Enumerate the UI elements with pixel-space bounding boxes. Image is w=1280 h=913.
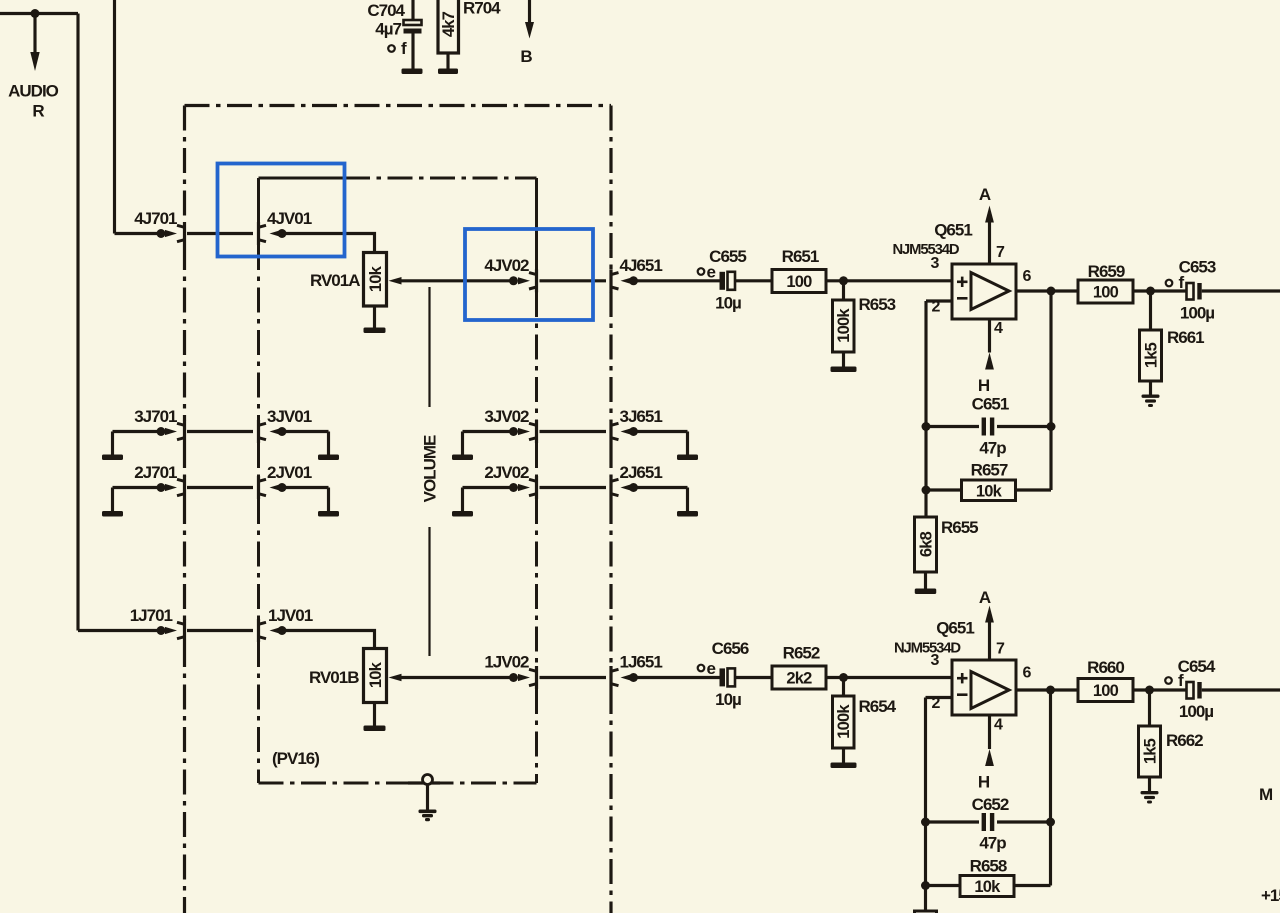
capacitor C651 bbox=[926, 395, 1051, 458]
stub terminal 2JV02 bbox=[452, 488, 510, 517]
wire 3JV02 to 3J651 bbox=[540, 430, 607, 433]
svg-text:R653: R653 bbox=[859, 295, 896, 314]
potentiometer RV01B bbox=[309, 649, 402, 703]
wire op-amp pin2 bottom bbox=[926, 696, 953, 699]
ground symbol under R662 bbox=[1141, 791, 1159, 804]
svg-text:100k: 100k bbox=[835, 704, 853, 739]
svg-text:M: M bbox=[1259, 785, 1273, 804]
junction dot C651 right bbox=[1047, 422, 1056, 431]
svg-text:H: H bbox=[978, 773, 990, 792]
svg-text:7: 7 bbox=[996, 641, 1005, 658]
junction dot C652 left bbox=[921, 818, 930, 827]
junction dot at R662 bbox=[1145, 686, 1154, 695]
svg-text:AUDIO: AUDIO bbox=[8, 82, 59, 101]
svg-text:B: B bbox=[520, 47, 532, 66]
svg-text:RV01A: RV01A bbox=[310, 271, 360, 290]
svg-text:10µ: 10µ bbox=[715, 294, 741, 313]
wire audio-R input bus top bbox=[0, 12, 78, 15]
pin 3 label bottom op-amp bbox=[931, 652, 940, 669]
connector 2J651 bbox=[611, 463, 662, 499]
highlight box around 4JV02 bbox=[465, 229, 593, 320]
wire RV01A wiper to 4JV02 bbox=[401, 279, 511, 282]
svg-text:10k: 10k bbox=[976, 483, 1003, 501]
arrow to AUDIO R label bbox=[30, 14, 39, 72]
stub terminal 2J701 bbox=[102, 488, 166, 517]
connector 1JV02 bbox=[484, 653, 536, 690]
junction dot at R654 bbox=[839, 673, 848, 682]
terminal bar under RV01A bbox=[364, 328, 386, 334]
svg-text:Q651: Q651 bbox=[934, 221, 972, 240]
capacitor C654 bbox=[1178, 657, 1216, 721]
junction dot 3J701 bbox=[157, 427, 166, 436]
wire 1JV01 to RV01B bbox=[282, 631, 375, 649]
pin 2 label bottom op-amp bbox=[932, 695, 941, 712]
wire op-amp output bottom bbox=[1016, 688, 1078, 691]
wire 4JV02 to 4J651 bbox=[540, 279, 607, 282]
wire R660 to C654 bbox=[1133, 688, 1187, 691]
wire C656 to R652 bbox=[735, 676, 772, 679]
ground terminal under R704 bbox=[438, 69, 458, 75]
power arrow H top bbox=[978, 319, 994, 395]
connector 3J701 bbox=[134, 407, 184, 443]
svg-text:47p: 47p bbox=[979, 439, 1006, 458]
svg-text:2J701: 2J701 bbox=[134, 463, 177, 482]
resistor R661 bbox=[1140, 291, 1205, 381]
svg-text:10k: 10k bbox=[367, 265, 385, 292]
svg-text:C653: C653 bbox=[1179, 258, 1216, 277]
svg-text:+15: +15 bbox=[1261, 886, 1280, 905]
svg-text:3: 3 bbox=[931, 652, 940, 669]
resistor R652 bbox=[772, 644, 826, 690]
wire 4J701 row bbox=[115, 232, 167, 235]
svg-text:1J651: 1J651 bbox=[620, 653, 663, 672]
wire 4J651 to C655 bbox=[632, 279, 720, 282]
junction dot 3JV02 bbox=[509, 427, 518, 436]
wire RV01B bottom bbox=[373, 703, 376, 726]
stub terminal 3JV01 bbox=[282, 432, 339, 461]
wire 1J701 to 1JV01 bbox=[187, 629, 253, 632]
connector 3JV02 bbox=[484, 407, 536, 443]
wire RV01B wiper to 1JV02 bbox=[401, 676, 511, 679]
svg-text:100: 100 bbox=[1093, 682, 1119, 700]
highlight box around 4JV01 bbox=[218, 164, 345, 257]
svg-text:100k: 100k bbox=[835, 308, 853, 343]
wire 4J701 branch vertical bbox=[113, 0, 116, 234]
pin 7 label bottom op-amp bbox=[996, 641, 1005, 658]
feedback left vertical top bbox=[924, 301, 927, 517]
stub terminal 3JV02 bbox=[452, 432, 510, 461]
op-amp U2 Q651 bottom bbox=[894, 619, 1016, 716]
svg-text:100: 100 bbox=[786, 273, 812, 291]
svg-text:R657: R657 bbox=[971, 461, 1008, 480]
power arrow B bbox=[520, 0, 534, 66]
svg-text:1JV02: 1JV02 bbox=[484, 653, 529, 672]
svg-text:4k7: 4k7 bbox=[440, 11, 458, 37]
wire op-amp output top bbox=[1016, 289, 1078, 292]
wire R655 to ground bbox=[924, 572, 927, 589]
svg-text:47p: 47p bbox=[979, 834, 1006, 853]
footnote mark of C654 bbox=[1165, 671, 1184, 690]
pin 2 label top op-amp bbox=[932, 299, 941, 316]
outer dash-dot box left edge bbox=[183, 106, 186, 913]
svg-text:2k2: 2k2 bbox=[786, 670, 812, 688]
wire 2JV02 to 2J651 bbox=[540, 486, 607, 489]
connector 2JV02 bbox=[484, 463, 536, 499]
svg-text:R704: R704 bbox=[463, 0, 501, 18]
svg-text:C704: C704 bbox=[367, 1, 405, 20]
svg-text:1k5: 1k5 bbox=[1143, 342, 1161, 368]
svg-text:3JV02: 3JV02 bbox=[484, 407, 529, 426]
svg-text:R662: R662 bbox=[1166, 731, 1203, 750]
inner dash-dot box right edge bbox=[535, 178, 538, 783]
pin 4 label bottom op-amp bbox=[994, 717, 1003, 734]
connector 2J701 bbox=[134, 463, 184, 499]
wire C653 to edge bbox=[1202, 289, 1280, 292]
junction dot output top bbox=[1047, 287, 1056, 296]
connector 3JV01 bbox=[259, 407, 312, 443]
resistor R704 bbox=[438, 0, 501, 69]
volume coupling dashed line bbox=[428, 287, 430, 656]
connector 1J701 bbox=[130, 606, 185, 642]
junction dot 4J701 bbox=[157, 229, 166, 238]
svg-text:A: A bbox=[979, 185, 991, 204]
svg-text:4: 4 bbox=[994, 717, 1003, 734]
junction dot at R661 bbox=[1146, 287, 1155, 296]
chassis ground at inner box bottom bbox=[408, 775, 440, 822]
ground terminal under R653 bbox=[831, 367, 857, 373]
terminal bar under R655 bbox=[915, 589, 937, 595]
capacitor C655 bbox=[709, 247, 746, 313]
footnote mark oe of C656 bbox=[698, 659, 716, 678]
capacitor C656 bbox=[712, 639, 749, 709]
power arrow H bottom bbox=[978, 715, 994, 792]
resistor R659 bbox=[1078, 262, 1133, 303]
pin 4 label top op-amp bbox=[994, 320, 1003, 337]
footnote mark of C653 bbox=[1166, 273, 1185, 292]
junction dot R657 left bbox=[922, 486, 931, 495]
svg-text:C651: C651 bbox=[972, 395, 1009, 414]
inner dash-dot box top edge bbox=[259, 177, 537, 180]
junction on audio-R bus bbox=[31, 9, 40, 18]
svg-text:R659: R659 bbox=[1088, 262, 1125, 281]
potentiometer RV01A bbox=[310, 253, 402, 307]
op-amp U1 Q651 top bbox=[892, 221, 1016, 320]
capacitor C652 bbox=[926, 795, 1051, 853]
junction dot R658 left bbox=[921, 881, 930, 890]
svg-text:1J701: 1J701 bbox=[130, 606, 173, 625]
pin 3 label top op-amp bbox=[931, 255, 940, 272]
svg-text:RV01B: RV01B bbox=[309, 668, 359, 687]
connector 2JV01 bbox=[259, 463, 312, 499]
svg-text:100: 100 bbox=[1093, 284, 1119, 302]
wire RV01A bottom bbox=[373, 306, 376, 328]
wire R661 to ground bbox=[1149, 381, 1152, 395]
svg-text:C652: C652 bbox=[972, 795, 1009, 814]
pin 6 label bottom op-amp bbox=[1023, 665, 1032, 682]
svg-text:6: 6 bbox=[1023, 268, 1032, 285]
connector 4J701 bbox=[134, 209, 184, 245]
pin 6 label top op-amp bbox=[1023, 268, 1032, 285]
svg-text:NJM5534D: NJM5534D bbox=[892, 242, 959, 258]
resistor R654 bbox=[833, 678, 897, 749]
svg-text:100µ: 100µ bbox=[1180, 304, 1214, 323]
resistor R651 bbox=[772, 247, 826, 293]
resistor R658 bbox=[926, 857, 1051, 897]
footnote mark oe of C655 bbox=[698, 263, 716, 282]
inner dash-dot box left edge bbox=[257, 178, 260, 783]
feedback left vertical bottom bbox=[924, 698, 927, 912]
wire 1JV02 to 1J651 bbox=[540, 676, 607, 679]
junction dot output bottom bbox=[1046, 686, 1055, 695]
svg-text:VOLUME: VOLUME bbox=[421, 435, 440, 502]
footnote mark of C704 bbox=[388, 39, 407, 58]
stub terminal 2J651 bbox=[632, 488, 699, 517]
stub terminal 2JV01 bbox=[282, 488, 339, 517]
wire C655 to R651 bbox=[735, 279, 772, 282]
svg-text:3: 3 bbox=[931, 255, 940, 272]
power arrow A top bbox=[979, 185, 994, 264]
svg-text:Q651: Q651 bbox=[936, 619, 974, 638]
svg-text:R655: R655 bbox=[941, 518, 978, 537]
svg-text:6k8: 6k8 bbox=[918, 531, 936, 557]
svg-text:10k: 10k bbox=[367, 661, 385, 688]
svg-text:e: e bbox=[707, 263, 716, 282]
connector 1JV01 bbox=[259, 606, 313, 642]
svg-text:R651: R651 bbox=[782, 247, 819, 266]
stub terminal 3J701 bbox=[102, 432, 166, 461]
outer dash-dot box top edge bbox=[185, 104, 612, 107]
terminal bar under RV01B bbox=[364, 726, 386, 732]
svg-text:NJM5534D: NJM5534D bbox=[894, 641, 961, 657]
svg-text:C656: C656 bbox=[712, 639, 749, 658]
resistor R660 bbox=[1078, 658, 1133, 702]
resistor R653 bbox=[833, 281, 896, 352]
svg-text:2JV02: 2JV02 bbox=[484, 463, 529, 482]
svg-text:4: 4 bbox=[994, 320, 1003, 337]
connector 1J651 bbox=[611, 653, 662, 690]
svg-text:R652: R652 bbox=[783, 644, 820, 663]
capacitor C704 bbox=[367, 0, 421, 69]
ground symbol under R661 bbox=[1142, 395, 1160, 408]
connector 4JV01 bbox=[259, 209, 312, 245]
svg-text:6: 6 bbox=[1023, 665, 1032, 682]
svg-text:3J651: 3J651 bbox=[620, 407, 663, 426]
connector 4J651 bbox=[611, 256, 662, 292]
svg-text:4JV02: 4JV02 bbox=[484, 256, 529, 275]
wire R659 to C653 bbox=[1133, 289, 1187, 292]
svg-text:4µ7: 4µ7 bbox=[375, 20, 401, 39]
wire 1J701 row bbox=[78, 629, 166, 632]
svg-text:3JV01: 3JV01 bbox=[267, 407, 312, 426]
stub terminal 3J651 bbox=[632, 432, 699, 461]
svg-text:3J701: 3J701 bbox=[134, 407, 177, 426]
svg-text:f: f bbox=[401, 39, 407, 58]
ground terminal under R654 bbox=[831, 763, 857, 769]
svg-text:C654: C654 bbox=[1178, 657, 1216, 676]
resistor R657 bbox=[926, 461, 1051, 501]
svg-text:100µ: 100µ bbox=[1179, 702, 1213, 721]
junction dot 2J701 bbox=[157, 483, 166, 492]
svg-text:4J701: 4J701 bbox=[134, 209, 177, 228]
svg-text:R658: R658 bbox=[970, 857, 1007, 876]
svg-text:A: A bbox=[979, 588, 991, 607]
svg-text:1JV01: 1JV01 bbox=[268, 606, 313, 625]
wire 1J651 to C656 bbox=[632, 676, 720, 679]
svg-text:1k5: 1k5 bbox=[1142, 738, 1160, 764]
svg-text:4JV01: 4JV01 bbox=[267, 209, 312, 228]
svg-text:10k: 10k bbox=[974, 878, 1001, 896]
feedback right vertical top bbox=[1049, 291, 1052, 490]
wire R651 to op-amp bbox=[826, 279, 952, 282]
outer dash-dot box right edge bbox=[609, 106, 612, 913]
wire R662 to ground bbox=[1148, 777, 1151, 792]
label M at right edge bbox=[1259, 785, 1273, 804]
svg-text:2JV01: 2JV01 bbox=[267, 463, 312, 482]
ground terminal under C704 bbox=[402, 69, 423, 75]
label VOLUME bbox=[421, 435, 440, 502]
svg-text:(PV16): (PV16) bbox=[272, 749, 319, 768]
svg-text:10µ: 10µ bbox=[715, 690, 741, 709]
svg-text:7: 7 bbox=[996, 244, 1005, 261]
label +15 clipped at right edge bbox=[1261, 886, 1280, 905]
junction dot C652 right bbox=[1046, 818, 1055, 827]
junction dot 1JV02 bbox=[509, 673, 518, 682]
junction dot 4JV02 bbox=[509, 276, 518, 285]
wire audio-R bus vertical bbox=[76, 14, 79, 631]
wire R654 to ground bbox=[842, 748, 845, 763]
connector 3J651 bbox=[611, 407, 662, 443]
svg-text:2J651: 2J651 bbox=[620, 463, 663, 482]
wire 4JV01 to RV01A bbox=[282, 234, 375, 253]
feedback right vertical bottom bbox=[1049, 690, 1052, 886]
junction dot 1J701 bbox=[157, 626, 166, 635]
pin 7 label top op-amp bbox=[996, 244, 1005, 261]
resistor R662 bbox=[1139, 690, 1204, 777]
svg-text:R661: R661 bbox=[1167, 328, 1204, 347]
svg-text:e: e bbox=[707, 659, 716, 678]
wire 4J701 to 4JV01 bbox=[187, 232, 253, 235]
svg-text:H: H bbox=[978, 376, 990, 395]
connector 4JV02 bbox=[484, 256, 536, 292]
wire R652 to op-amp bbox=[826, 676, 952, 679]
svg-text:R660: R660 bbox=[1087, 658, 1124, 677]
wire op-amp pin2 top bbox=[926, 299, 952, 302]
wire 2J701 to 2JV01 bbox=[187, 486, 253, 489]
inner dash-dot box bottom edge bbox=[259, 782, 537, 785]
junction dot C651 left bbox=[922, 422, 931, 431]
label PV16 bbox=[272, 749, 319, 768]
resistor R656 clipped bbox=[915, 911, 937, 913]
label AUDIO R bbox=[8, 82, 59, 121]
junction dot 2JV02 bbox=[509, 483, 518, 492]
wire 3J701 to 3JV01 bbox=[187, 430, 253, 433]
svg-text:R654: R654 bbox=[859, 697, 897, 716]
power arrow A bottom bbox=[979, 588, 994, 660]
wire C654 to edge bbox=[1202, 688, 1280, 691]
capacitor C653 bbox=[1179, 258, 1216, 323]
svg-text:4J651: 4J651 bbox=[620, 256, 663, 275]
wire R653 to ground bbox=[842, 352, 845, 367]
resistor R655 bbox=[915, 517, 979, 572]
junction dot at R653 bbox=[839, 276, 848, 285]
svg-text:R: R bbox=[32, 102, 44, 121]
